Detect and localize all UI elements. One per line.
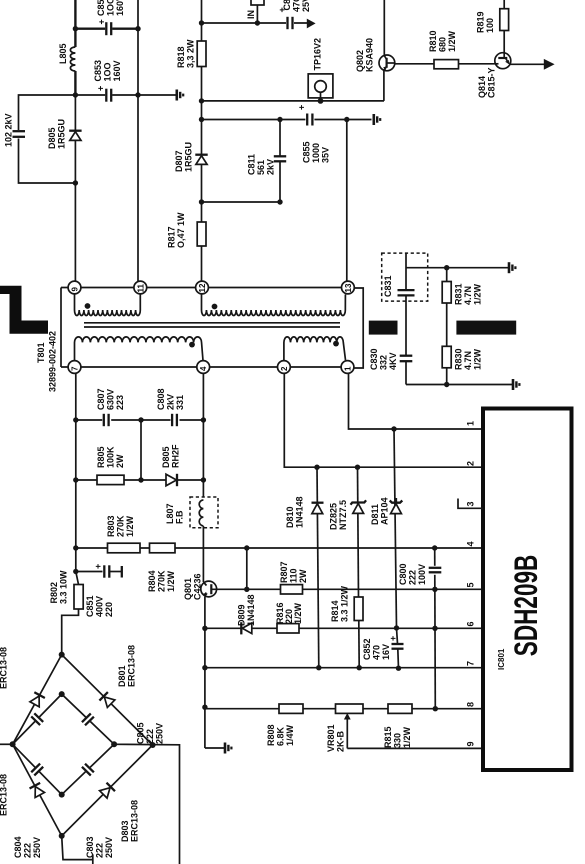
wire pin4 dropline xyxy=(202,373,204,497)
winding 12-13 xyxy=(202,294,346,316)
svg-text:IC801: IC801 xyxy=(497,648,506,670)
svg-text:ERC13-08: ERC13-08 xyxy=(130,800,140,842)
node dots y548 xyxy=(73,545,78,550)
wire from top edge at x138 xyxy=(137,0,139,281)
svg-text:R803: R803 xyxy=(106,515,116,537)
pin 2 xyxy=(278,361,291,374)
ground (bottom right) xyxy=(513,379,519,390)
resistor R831 xyxy=(442,268,451,347)
svg-text:1/2W: 1/2W xyxy=(125,515,135,537)
capacitor C851 xyxy=(76,564,122,579)
svg-text:270K: 270K xyxy=(116,515,126,537)
svg-text:C4236: C4236 xyxy=(193,573,203,600)
wire bridge bottom to cap stub xyxy=(62,836,93,864)
svg-text:1/2W: 1/2W xyxy=(166,570,176,592)
capacitor bridge top-left xyxy=(30,712,44,726)
connector box IN (cut off at top) xyxy=(251,0,264,23)
svg-text:4KV: 4KV xyxy=(388,352,398,370)
node dot y183 xyxy=(73,180,78,185)
resistor R830 xyxy=(442,346,451,384)
svg-text:C85O: C85O xyxy=(96,0,106,16)
svg-text:KSA940: KSA940 xyxy=(365,38,375,72)
svg-text:9: 9 xyxy=(71,287,80,292)
wire pin5 rail y589.3 xyxy=(247,588,482,590)
svg-text:D805: D805 xyxy=(161,446,171,468)
svg-text:2: 2 xyxy=(466,461,476,466)
wire y202 xyxy=(202,201,281,203)
wire pin9 rail y748.4 xyxy=(347,747,481,749)
svg-text:Q801: Q801 xyxy=(183,578,193,600)
wire column DZ825 xyxy=(358,467,359,597)
svg-text:R817: R817 xyxy=(167,226,177,248)
diode D809 xyxy=(241,622,252,634)
label D811 xyxy=(370,497,390,525)
wire column C800 xyxy=(434,548,437,709)
svg-text:35V: 35V xyxy=(321,147,331,163)
svg-text:D810: D810 xyxy=(285,506,295,528)
wire L805 to C853 node xyxy=(74,71,76,95)
svg-text:C807: C807 xyxy=(96,388,106,410)
wire column D811 xyxy=(394,429,397,628)
ground (end of y119.5) xyxy=(374,114,380,125)
node dots y202 xyxy=(199,199,204,204)
wire pin8 rail y708.7 xyxy=(204,707,206,709)
label C805 xyxy=(136,722,165,744)
capacitor C808 xyxy=(171,413,180,427)
transformer left bracket xyxy=(60,288,62,368)
capacitor C803 (bridge bottom-right) xyxy=(81,762,95,776)
resistor R808 xyxy=(279,704,303,713)
node dot R830 bottom xyxy=(444,382,449,387)
svg-text:2: 2 xyxy=(280,366,289,371)
node dot C851 tap xyxy=(73,569,78,574)
label Q801 xyxy=(183,573,203,600)
label D805 RH2F xyxy=(161,444,181,468)
winding 9-11 xyxy=(75,294,141,316)
svg-text:250V: 250V xyxy=(32,837,42,858)
pin 1 xyxy=(341,361,354,374)
wire pin2 rail y467 xyxy=(284,373,481,467)
svg-text:12: 12 xyxy=(198,283,207,292)
svg-text:D811: D811 xyxy=(370,504,380,525)
inductor L807 with dashed box xyxy=(190,497,218,528)
svg-text:D801: D801 xyxy=(117,665,127,687)
svg-text:R810: R810 xyxy=(428,30,438,52)
label VR801 xyxy=(326,724,346,752)
svg-text:7: 7 xyxy=(71,366,80,371)
wire down to transformer pin 9 xyxy=(74,183,76,281)
label T801 xyxy=(36,331,58,392)
wire pin1 rail y429 xyxy=(349,373,482,429)
label Q814 xyxy=(477,67,497,98)
svg-text:1/2W: 1/2W xyxy=(473,283,483,305)
zener DZ825 xyxy=(351,500,367,513)
label D810 xyxy=(285,496,305,528)
wire x141 xyxy=(140,420,142,480)
node dots y480 xyxy=(73,477,78,482)
transformer bottom rail xyxy=(61,366,348,368)
svg-text:100: 100 xyxy=(485,18,495,33)
svg-text:222: 222 xyxy=(408,570,418,585)
wire pin7 dropline xyxy=(75,373,77,548)
label L807 F.B xyxy=(165,503,185,524)
svg-text:561: 561 xyxy=(256,160,266,175)
svg-text:D807: D807 xyxy=(174,150,184,172)
svg-text:6: 6 xyxy=(466,621,476,626)
svg-text:DZ825: DZ825 xyxy=(329,503,339,530)
node dots y95 xyxy=(73,92,78,97)
resistor R804 xyxy=(150,543,176,553)
svg-text:R808: R808 xyxy=(266,724,276,746)
wire y119.5 rail xyxy=(202,119,372,121)
pin 9 xyxy=(68,281,81,294)
svg-text:100V: 100V xyxy=(417,564,427,585)
svg-text:160V: 160V xyxy=(112,60,122,81)
svg-text:C851: C851 xyxy=(85,595,95,617)
capacitor C853 xyxy=(96,86,113,103)
svg-text:C815-Y: C815-Y xyxy=(487,67,497,98)
svg-text:330: 330 xyxy=(393,733,403,748)
svg-text:4: 4 xyxy=(466,541,476,546)
svg-text:1000: 1000 xyxy=(311,143,321,163)
capacitor 102 2kV xyxy=(11,130,26,139)
svg-text:3: 3 xyxy=(466,501,476,506)
label Q802 xyxy=(355,38,375,72)
svg-text:270K: 270K xyxy=(157,570,167,592)
wire column D810 xyxy=(317,467,319,668)
label C855 xyxy=(302,141,331,163)
svg-text:11: 11 xyxy=(136,283,145,292)
label R808 xyxy=(266,724,295,746)
svg-text:F.B: F.B xyxy=(175,510,185,524)
node dots bridge xyxy=(59,652,65,658)
node dot R831 top xyxy=(444,265,449,270)
wire pin7 rail y667.7 xyxy=(205,667,482,669)
svg-text:R830: R830 xyxy=(454,348,464,370)
black redaction bar right xyxy=(456,321,516,335)
Q802 emitter wire down to y101 xyxy=(383,70,385,101)
svg-text:2kV: 2kV xyxy=(166,394,176,410)
capacitor C830 xyxy=(400,356,413,385)
svg-text:1N4148: 1N4148 xyxy=(246,594,256,626)
node dots y119.5 xyxy=(199,117,204,122)
resistor R818 xyxy=(197,41,206,67)
svg-text:TP16V2: TP16V2 xyxy=(313,38,323,71)
resistor R805 xyxy=(97,475,124,484)
svg-text:6.8K: 6.8K xyxy=(276,726,286,746)
svg-text:C84: C84 xyxy=(282,0,292,11)
svg-text:D805: D805 xyxy=(47,127,57,149)
label R830 xyxy=(454,348,483,370)
node dots y420 xyxy=(73,417,78,422)
svg-text:C853: C853 xyxy=(93,60,103,82)
black redaction bar left xyxy=(369,321,398,335)
winding 7-4 xyxy=(75,337,204,361)
svg-text:RH2F: RH2F xyxy=(171,444,181,468)
label D801 xyxy=(117,645,137,687)
label C807 xyxy=(96,388,125,410)
svg-text:C811: C811 xyxy=(247,154,257,175)
svg-text:IN: IN xyxy=(246,10,256,19)
left branch wire to 102-2kV cap xyxy=(19,95,76,183)
label R815 xyxy=(383,726,412,748)
label C830 xyxy=(369,348,398,370)
svg-text:L807: L807 xyxy=(165,503,175,524)
label C853 xyxy=(93,60,122,82)
wire Q801 emitter column xyxy=(204,597,206,748)
resistor R815 xyxy=(388,704,412,713)
ground (top right) xyxy=(509,262,515,273)
wire y420 xyxy=(76,419,204,421)
svg-text:220: 220 xyxy=(104,602,114,617)
svg-text:R831: R831 xyxy=(454,283,464,305)
diode D805 xyxy=(69,95,81,183)
capacitor C852 xyxy=(388,628,404,668)
wire down to transformer pin 13 xyxy=(346,120,348,282)
svg-text:R814: R814 xyxy=(330,600,340,622)
svg-text:+: + xyxy=(93,564,103,569)
svg-text:C831: C831 xyxy=(383,275,393,297)
svg-text:1/2W: 1/2W xyxy=(293,602,303,624)
svg-text:2W: 2W xyxy=(115,454,125,468)
svg-text:1OO: 1OO xyxy=(103,62,113,81)
svg-text:32899-002-402: 32899-002-402 xyxy=(48,331,58,392)
svg-text:13: 13 xyxy=(344,283,353,292)
node dot pin1 rail xyxy=(391,426,396,431)
wire Q801 base link xyxy=(217,588,247,590)
label C803 xyxy=(85,836,114,858)
label R818 xyxy=(176,39,196,68)
svg-text:O,47 1W: O,47 1W xyxy=(176,212,186,248)
wire R817 to transformer pin 12 xyxy=(201,246,203,281)
transistor Q801 C4236 xyxy=(201,581,217,597)
svg-text:47O: 47O xyxy=(292,0,302,12)
label R804 xyxy=(147,570,176,592)
svg-text:C800: C800 xyxy=(398,563,408,585)
svg-text:2kV: 2kV xyxy=(266,159,276,175)
wire R810 to Q814 xyxy=(459,63,496,65)
resistor R817 xyxy=(197,222,206,246)
phase dot winding 12-13 xyxy=(212,304,218,310)
label C851 xyxy=(85,595,114,617)
label D803 xyxy=(120,800,140,842)
node dots pin6 rail xyxy=(394,625,399,630)
diode D811 xyxy=(390,498,403,514)
capacitor C811 xyxy=(274,120,286,203)
capacitor C85x (top, cut off) xyxy=(97,19,113,36)
svg-text:R807: R807 xyxy=(279,561,289,583)
svg-text:Q802: Q802 xyxy=(355,50,365,72)
wire from top edge x201.5 xyxy=(201,0,203,41)
svg-text:4.7N: 4.7N xyxy=(463,351,473,370)
diode D804 (bottom-left edge) xyxy=(30,783,46,798)
test point TP16V2 xyxy=(308,74,333,101)
label R816 xyxy=(275,602,303,624)
label R831 xyxy=(454,283,483,305)
svg-text:C804: C804 xyxy=(13,836,23,858)
resistor R814 xyxy=(354,597,363,621)
svg-text:R815: R815 xyxy=(383,726,393,748)
wire to ground elbow xyxy=(205,747,224,749)
svg-text:100K: 100K xyxy=(106,446,116,468)
svg-text:250V: 250V xyxy=(104,837,114,858)
wire top y267.7 xyxy=(406,267,508,269)
wire R802 jog to bridge top xyxy=(62,609,79,655)
svg-text:8: 8 xyxy=(466,702,476,707)
svg-text:R819: R819 xyxy=(476,11,486,33)
transformer right bracket pins 13-1 xyxy=(354,288,364,368)
resistor R802 xyxy=(74,585,83,610)
svg-text:SDH209B: SDH209B xyxy=(508,555,544,657)
svg-text:D803: D803 xyxy=(120,820,130,842)
resistor R816 xyxy=(277,624,299,633)
node dot base xyxy=(244,587,249,592)
pin 3 stub xyxy=(458,499,483,509)
ground (right of C853) xyxy=(177,90,183,101)
svg-text:400V: 400V xyxy=(95,596,105,617)
capacitor C831 xyxy=(398,253,415,355)
svg-text:R805: R805 xyxy=(96,446,106,468)
label R814 xyxy=(330,585,350,622)
svg-text:2K-B: 2K-B xyxy=(336,730,346,752)
label R810 xyxy=(428,30,457,52)
svg-text:223: 223 xyxy=(115,395,125,410)
label R803 xyxy=(106,515,135,537)
potentiometer VR801 xyxy=(336,704,364,748)
arrow terminal right xyxy=(544,59,555,70)
resistor R810 xyxy=(434,60,459,69)
label C804 xyxy=(13,836,42,858)
node dots pin7 rail xyxy=(316,665,321,670)
svg-text:R818: R818 xyxy=(176,46,186,68)
svg-text:470: 470 xyxy=(372,645,382,660)
svg-text:9: 9 xyxy=(466,741,476,746)
dashed box C831 xyxy=(382,253,428,301)
phase dot winding 2-1 xyxy=(333,341,339,347)
wire Q802 to R810 xyxy=(395,63,434,65)
svg-text:Q814: Q814 xyxy=(477,76,487,98)
svg-text:1/2W: 1/2W xyxy=(447,30,457,52)
node dots C800 column xyxy=(432,587,437,592)
svg-text:ERC13-08: ERC13-08 xyxy=(127,645,137,687)
wire Q814 emitter to arrow xyxy=(509,63,545,65)
node dots top rail xyxy=(73,26,78,31)
svg-text:L805: L805 xyxy=(58,43,68,64)
svg-text:25V: 25V xyxy=(301,0,311,12)
pin 13 xyxy=(342,281,355,294)
label DZ825 xyxy=(329,500,349,530)
diode D810 xyxy=(312,503,324,514)
wire y480 xyxy=(76,479,204,481)
label C8xx xyxy=(282,0,311,12)
arrow terminal end of y23 xyxy=(307,19,316,29)
node dots y101 xyxy=(199,98,204,103)
wire x247 base drop xyxy=(246,548,248,589)
label D805 xyxy=(47,119,67,149)
svg-text:3.3 10W: 3.3 10W xyxy=(59,570,69,604)
svg-text:222: 222 xyxy=(145,729,155,744)
wire y101 rail xyxy=(202,100,385,102)
wire bridge right vertex to bottom edge xyxy=(114,744,179,864)
svg-text:3.3 1/2W: 3.3 1/2W xyxy=(340,585,350,622)
wire y23 rail xyxy=(202,22,308,24)
svg-text:1N4148: 1N4148 xyxy=(295,496,305,528)
wire bridge left vertex to page edge xyxy=(0,743,13,745)
svg-text:680: 680 xyxy=(438,37,448,52)
wire from top edge to R819 xyxy=(503,0,505,9)
svg-text:5: 5 xyxy=(466,582,476,587)
svg-text:+: + xyxy=(97,19,107,24)
label C808 xyxy=(156,388,185,410)
inner diamond xyxy=(13,694,115,795)
svg-text:16V: 16V xyxy=(381,644,391,660)
svg-text:250V: 250V xyxy=(155,723,165,744)
svg-text:D809: D809 xyxy=(237,604,247,626)
svg-text:4.7N: 4.7N xyxy=(463,286,473,305)
svg-text:1R5GU: 1R5GU xyxy=(184,142,194,172)
wire x76 down to R802 xyxy=(76,548,79,585)
svg-text:+: + xyxy=(297,105,307,110)
diode D807 xyxy=(195,155,207,222)
diode D802 (top-left edge) xyxy=(29,692,45,707)
label R817 xyxy=(167,212,187,248)
wire L807 to Q801 xyxy=(202,526,204,582)
diode D805 (RH2F) xyxy=(166,474,177,486)
wire from top edge at x75 xyxy=(74,0,76,47)
transformer core lines xyxy=(84,323,340,327)
resistor R803 xyxy=(108,543,141,553)
label D809 xyxy=(237,594,257,626)
svg-text:+: + xyxy=(96,86,106,91)
label C852 xyxy=(362,638,391,660)
capacitor C800 xyxy=(428,566,442,575)
svg-text:C805: C805 xyxy=(136,722,146,744)
transistor Q802 KSA940 xyxy=(379,55,395,71)
svg-text:T801: T801 xyxy=(36,342,46,363)
label R802 xyxy=(49,570,69,604)
svg-text:+: + xyxy=(388,636,398,641)
phase dot winding 7-4 xyxy=(189,342,195,348)
svg-text:3,3 2W: 3,3 2W xyxy=(186,39,196,68)
capacitor C804 (bridge bottom-left) xyxy=(30,762,44,776)
svg-text:NTZ7.5: NTZ7.5 xyxy=(338,500,348,530)
svg-text:222: 222 xyxy=(23,843,33,858)
pin 7 xyxy=(68,361,81,374)
transformer top rail xyxy=(61,287,348,289)
svg-text:C808: C808 xyxy=(156,388,166,410)
label C800 xyxy=(398,563,427,585)
ground (emitter) xyxy=(225,743,231,754)
svg-text:ERC13-08: ERC13-08 xyxy=(0,774,9,816)
black corner mark at left page edge xyxy=(0,286,48,334)
wire R814 to pin7 rail xyxy=(358,621,360,668)
wire from top edge to Q802 collector xyxy=(383,0,385,56)
svg-text:4: 4 xyxy=(199,366,208,371)
svg-text:222: 222 xyxy=(95,843,105,858)
svg-text:102 2kV: 102 2kV xyxy=(4,113,14,147)
svg-text:630V: 630V xyxy=(106,389,116,410)
resistor R819 xyxy=(500,9,509,31)
svg-text:1: 1 xyxy=(466,421,476,426)
svg-text:C830: C830 xyxy=(369,348,379,370)
svg-text:1OO: 1OO xyxy=(106,0,116,16)
node dots y23 xyxy=(199,20,204,25)
svg-text:110: 110 xyxy=(289,568,299,583)
svg-text:1R5GU: 1R5GU xyxy=(57,119,67,149)
wire pin6 rail y628.3 xyxy=(205,627,482,629)
capacitor C805 (bridge top-right) xyxy=(81,712,95,726)
node dots pin2 rail xyxy=(314,465,319,470)
